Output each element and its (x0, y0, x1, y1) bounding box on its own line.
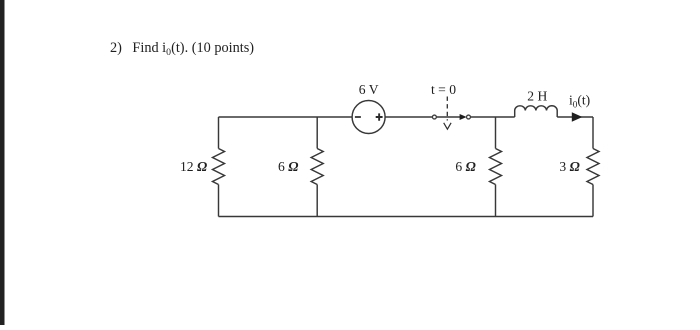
svg-text:i0(t): i0(t) (569, 93, 590, 110)
wire source to switch (385, 116, 432, 118)
voltage source plus sign (376, 113, 383, 120)
svg-text:6 V: 6 V (359, 82, 379, 97)
current arrow i0(t) (572, 112, 583, 122)
wire 6-ohm left branch top stub (316, 117, 318, 149)
resistor 12 ohm zigzag (213, 149, 225, 185)
wire inductor to top-right corner (557, 116, 593, 118)
resistor 6 ohm left zigzag (311, 149, 323, 185)
wire top-left (left node to source) (219, 116, 353, 118)
wire 6-ohm left branch bottom stub (316, 185, 318, 217)
resistor 6 ohm right zigzag (490, 149, 502, 185)
switch contact circle right (467, 115, 471, 119)
switch blade arrowhead (460, 114, 467, 120)
wire switch bar between contacts (436, 116, 460, 118)
wire 6-ohm right branch top stub (495, 117, 497, 149)
voltage source 6V circle (352, 101, 385, 134)
wire right vertical bottom stub (592, 185, 594, 217)
wire 6-ohm right branch bottom stub (495, 185, 497, 217)
wire left vertical top stub (218, 117, 220, 149)
switch actuation arrowhead (open V) (444, 123, 451, 129)
svg-text:12 Ω: 12 Ω (180, 159, 207, 174)
switch contact circle left (432, 115, 436, 119)
voltage source minus sign (355, 116, 361, 118)
svg-text:2 H: 2 H (527, 89, 547, 104)
inductor 2H (515, 106, 558, 117)
svg-text:3 Ω: 3 Ω (559, 159, 579, 174)
wire right vertical top stub (592, 117, 594, 149)
resistor 3 ohm zigzag (587, 149, 599, 185)
wire switch to right junction (470, 116, 514, 118)
svg-text:2)Find i0(t). (10 points): 2)Find i0(t). (10 points) (110, 40, 254, 58)
svg-text:t = 0: t = 0 (431, 82, 456, 97)
page edge bar (0, 0, 5, 325)
wire left vertical bottom stub (218, 185, 220, 217)
wire bottom (219, 216, 594, 218)
svg-text:6 Ω: 6 Ω (278, 159, 298, 174)
switch actuation dashed arrow (446, 97, 448, 121)
svg-text:6 Ω: 6 Ω (455, 159, 475, 174)
